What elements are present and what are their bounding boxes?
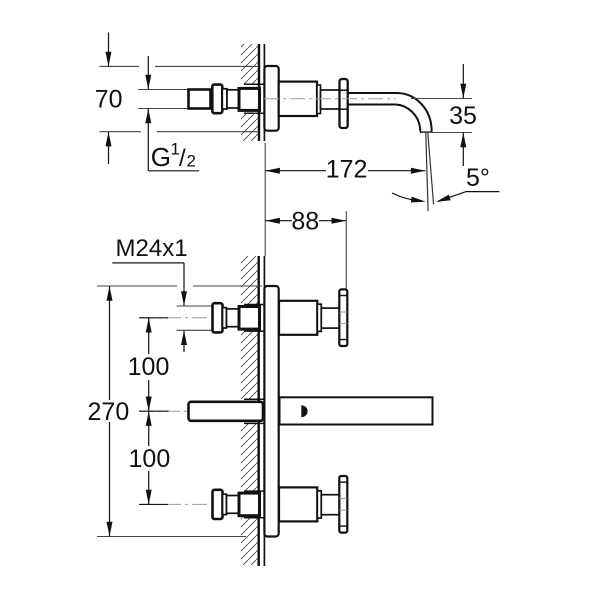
- valve 2 centerline: [140, 503, 335, 505]
- svg-text:88: 88: [291, 208, 319, 236]
- dimension 35 extension lines: [411, 98, 472, 100]
- dimension 88 line and arrows: [265, 218, 346, 224]
- valve 1 body: [279, 301, 317, 335]
- escutcheon plate (bottom view): [264, 286, 278, 537]
- dimension 270 extension lines: [97, 285, 177, 287]
- wall hole white gap top view: [240, 84, 264, 113]
- inlet flange ring: [212, 85, 222, 114]
- valve 1 hidden stem lines: [340, 311, 348, 313]
- wall hole white gaps bottom view: [240, 305, 264, 332]
- wall hole edges valve 1: [244, 304, 264, 306]
- spout body step: [317, 85, 321, 114]
- M24x1 extension lines: [177, 305, 213, 307]
- inlet block: [227, 90, 239, 108]
- svg-text:G: G: [151, 142, 171, 172]
- valve 2 stem: [321, 495, 339, 515]
- wall hole edges valve 2: [244, 490, 264, 492]
- angle 5 deg arc left: [392, 193, 426, 205]
- valve 1 centerline: [140, 317, 335, 319]
- valve 1 block: [227, 309, 240, 327]
- wall line face (bottom view): [263, 256, 265, 566]
- spout neck: [321, 90, 341, 109]
- wall line inner (bottom view): [258, 256, 260, 566]
- dimension 35 arrows: [460, 64, 466, 166]
- valve 1 handle cap lines: [340, 295, 348, 297]
- dimension 70 extension lines: [100, 65, 140, 67]
- spout centerline: [139, 410, 190, 412]
- water stream left line: [426, 133, 428, 211]
- valve 1 in-wall block (thick): [239, 307, 260, 330]
- svg-text:M24x1: M24x1: [116, 235, 188, 262]
- valve 1 handle: [339, 289, 347, 346]
- spout plan tube rect: [280, 397, 433, 424]
- valve 2 in-wall block (thick): [239, 493, 260, 516]
- dimension 172 left extension line: [264, 143, 266, 256]
- wall line face (top view): [263, 44, 265, 141]
- in-wall body block (thick): [239, 88, 260, 110]
- dimension 172 line and arrows: [265, 168, 425, 174]
- G 1/2 label text: [151, 140, 196, 172]
- valve 2 handle cap lines: [340, 481, 348, 483]
- svg-text:100: 100: [128, 353, 170, 381]
- dimension 88 right extension line: [345, 211, 347, 289]
- M24x1 underline: [112, 262, 184, 264]
- wall hole edges spout: [244, 398, 264, 400]
- M24x1 leader and arrows: [181, 263, 187, 352]
- wall hatching bottom view: [241, 256, 259, 565]
- svg-text:100: 100: [129, 445, 171, 473]
- G 1/2 label underline: [148, 170, 199, 172]
- svg-text:2: 2: [187, 152, 196, 171]
- valve 2 ring2: [317, 491, 321, 518]
- svg-text:172: 172: [326, 156, 368, 184]
- escutcheon plate (top view): [264, 66, 278, 131]
- svg-text:/: /: [179, 145, 186, 172]
- dimension 100 lower line and arrows: [146, 411, 152, 504]
- valve 1 group: [213, 289, 348, 346]
- valve 2 group: [213, 476, 348, 533]
- spout outlet face: [420, 131, 432, 133]
- valve 1 stem: [321, 308, 339, 328]
- dimension 100 upper line and arrows: [146, 318, 152, 411]
- valve 1 flange ring: [213, 303, 223, 332]
- spout plan outlet mark (D blob): [301, 405, 307, 417]
- valve 2 body: [279, 487, 317, 521]
- valve 2 flange ring: [213, 490, 223, 519]
- spout plan in-wall rect: [189, 402, 264, 421]
- centerline top view: [264, 98, 396, 100]
- G1/2 inlet stub extension lines: [138, 89, 189, 91]
- svg-text:35: 35: [449, 102, 477, 130]
- valve 1 collar: [223, 308, 227, 328]
- dimension 70 arrows: [106, 33, 112, 165]
- spout neck hidden lines across flange: [340, 89, 348, 91]
- spout tube bottom line: [348, 105, 421, 132]
- spout tube top line: [348, 93, 432, 132]
- valve 2 handle: [339, 476, 347, 533]
- wall line inner (top view): [258, 44, 260, 141]
- valve2 centerline stub at dim: [139, 503, 168, 505]
- angle 5 deg leader right: [435, 192, 499, 205]
- svg-text:5°: 5°: [466, 164, 490, 192]
- valve 1 ring2: [317, 304, 321, 331]
- valve 2 collar: [223, 494, 227, 514]
- spout flange disc: [340, 79, 348, 128]
- spout centerline stub at dim: [139, 410, 169, 412]
- water stream right line: [428, 133, 434, 205]
- dimension 270 line and arrows: [107, 286, 113, 536]
- svg-text:70: 70: [95, 86, 123, 114]
- inlet stub pipe: [189, 90, 211, 109]
- svg-text:270: 270: [88, 398, 130, 426]
- spout body cylinder: [279, 82, 317, 116]
- wall hatching top view: [241, 44, 259, 141]
- valve1 centerline stub at dim: [139, 317, 168, 319]
- valve 2 block: [227, 496, 240, 514]
- inlet collar: [222, 89, 227, 109]
- G 1/2 label arrows: [145, 56, 151, 171]
- wall hole edge lines top view: [244, 83, 264, 85]
- valve 2 hidden stem lines: [340, 498, 348, 500]
